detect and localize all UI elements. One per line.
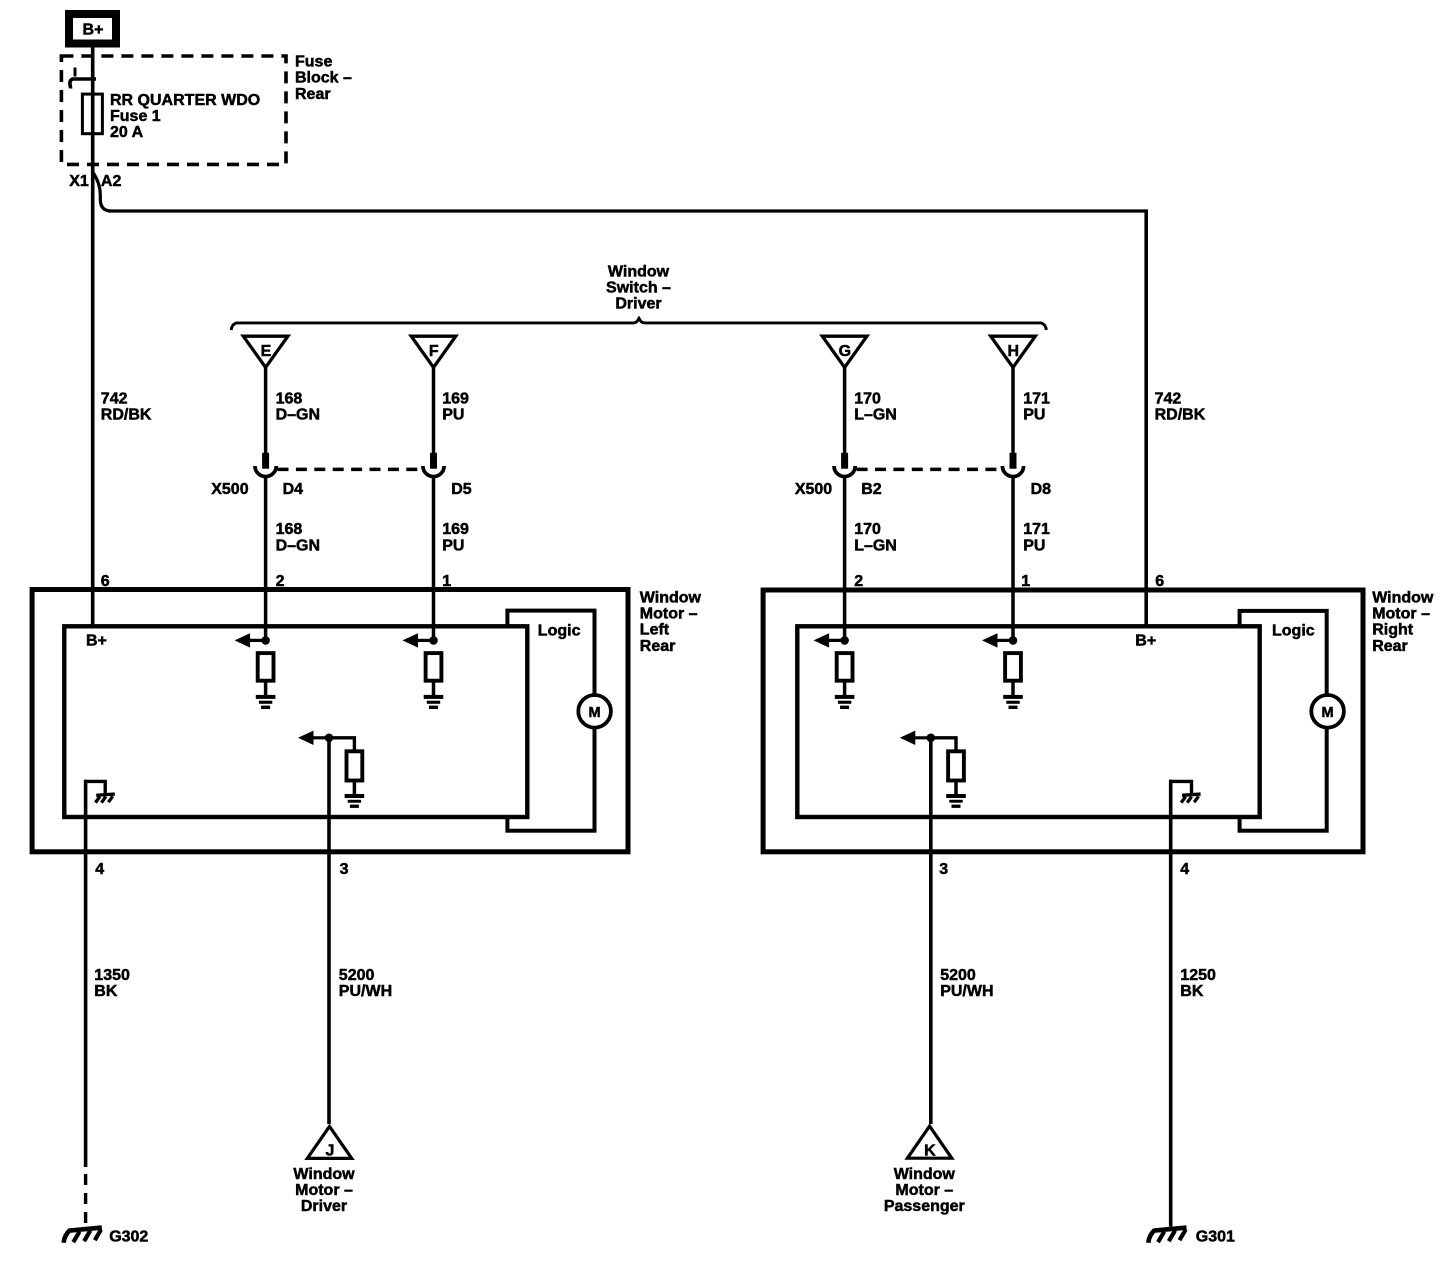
svg-text:20 A: 20 A bbox=[110, 124, 144, 141]
svg-text:Window: Window bbox=[894, 1166, 956, 1183]
svg-text:Fuse: Fuse bbox=[295, 54, 332, 71]
svg-text:3: 3 bbox=[340, 861, 349, 878]
svg-text:PU: PU bbox=[442, 407, 464, 424]
svg-text:Logic: Logic bbox=[1272, 623, 1315, 640]
svg-text:RD/BK: RD/BK bbox=[1155, 407, 1206, 424]
svg-text:742: 742 bbox=[101, 391, 128, 408]
svg-text:168: 168 bbox=[276, 521, 303, 538]
svg-text:Left: Left bbox=[640, 622, 670, 639]
svg-text:D4: D4 bbox=[283, 481, 304, 498]
svg-text:B+: B+ bbox=[1135, 633, 1156, 650]
svg-text:5200: 5200 bbox=[339, 967, 375, 984]
svg-text:D–GN: D–GN bbox=[276, 407, 320, 424]
svg-text:Window: Window bbox=[608, 264, 670, 281]
svg-text:169: 169 bbox=[442, 391, 469, 408]
svg-text:BK: BK bbox=[94, 983, 118, 1000]
svg-text:Passenger: Passenger bbox=[884, 1198, 965, 1215]
svg-text:6: 6 bbox=[101, 573, 110, 590]
svg-text:Window: Window bbox=[1372, 590, 1434, 607]
svg-text:Window: Window bbox=[640, 590, 702, 607]
svg-text:H: H bbox=[1008, 343, 1020, 360]
svg-text:Rear: Rear bbox=[295, 86, 331, 103]
svg-text:5200: 5200 bbox=[940, 967, 976, 984]
svg-text:Motor –: Motor – bbox=[640, 606, 698, 623]
svg-text:Driver: Driver bbox=[615, 296, 661, 313]
svg-text:G302: G302 bbox=[109, 1229, 148, 1246]
svg-text:RD/BK: RD/BK bbox=[101, 407, 152, 424]
svg-text:Logic: Logic bbox=[538, 623, 581, 640]
svg-text:F: F bbox=[429, 343, 439, 360]
svg-text:E: E bbox=[261, 343, 272, 360]
svg-text:Switch –: Switch – bbox=[606, 280, 671, 297]
svg-text:D–GN: D–GN bbox=[276, 537, 320, 554]
svg-text:Right: Right bbox=[1372, 622, 1414, 639]
svg-text:PU/WH: PU/WH bbox=[940, 983, 993, 1000]
svg-text:PU: PU bbox=[1023, 407, 1045, 424]
svg-text:Rear: Rear bbox=[1372, 638, 1408, 655]
svg-text:K: K bbox=[924, 1142, 936, 1159]
svg-text:B+: B+ bbox=[86, 633, 107, 650]
svg-text:3: 3 bbox=[939, 861, 948, 878]
svg-text:D5: D5 bbox=[451, 481, 472, 498]
svg-text:L–GN: L–GN bbox=[854, 537, 897, 554]
svg-text:RR QUARTER WDO: RR QUARTER WDO bbox=[110, 92, 260, 109]
svg-text:B2: B2 bbox=[861, 481, 882, 498]
svg-text:169: 169 bbox=[442, 521, 469, 538]
svg-text:Rear: Rear bbox=[640, 638, 676, 655]
svg-text:171: 171 bbox=[1023, 521, 1050, 538]
svg-text:742: 742 bbox=[1155, 391, 1182, 408]
svg-text:Driver: Driver bbox=[301, 1198, 347, 1215]
svg-text:B+: B+ bbox=[83, 22, 104, 39]
svg-text:Block –: Block – bbox=[295, 70, 352, 87]
svg-text:PU/WH: PU/WH bbox=[339, 983, 392, 1000]
svg-text:4: 4 bbox=[95, 861, 104, 878]
svg-text:PU: PU bbox=[442, 537, 464, 554]
svg-text:6: 6 bbox=[1155, 573, 1164, 590]
svg-text:X500: X500 bbox=[795, 481, 832, 498]
svg-text:171: 171 bbox=[1023, 391, 1050, 408]
svg-text:A2: A2 bbox=[101, 173, 122, 190]
svg-text:168: 168 bbox=[276, 391, 303, 408]
svg-text:BK: BK bbox=[1180, 983, 1204, 1000]
svg-text:G301: G301 bbox=[1196, 1229, 1235, 1246]
svg-text:2: 2 bbox=[276, 573, 285, 590]
svg-text:L–GN: L–GN bbox=[854, 407, 897, 424]
svg-text:1350: 1350 bbox=[94, 967, 130, 984]
svg-text:D8: D8 bbox=[1031, 481, 1052, 498]
svg-text:X1: X1 bbox=[69, 173, 89, 190]
svg-text:Fuse 1: Fuse 1 bbox=[110, 108, 161, 125]
svg-text:Motor –: Motor – bbox=[895, 1182, 953, 1199]
svg-text:1250: 1250 bbox=[1180, 967, 1216, 984]
svg-text:1: 1 bbox=[442, 573, 451, 590]
svg-text:J: J bbox=[326, 1142, 335, 1159]
svg-text:4: 4 bbox=[1180, 861, 1189, 878]
svg-text:Window: Window bbox=[293, 1166, 355, 1183]
svg-text:G: G bbox=[839, 343, 851, 360]
svg-text:PU: PU bbox=[1023, 537, 1045, 554]
svg-text:Motor –: Motor – bbox=[295, 1182, 353, 1199]
svg-text:170: 170 bbox=[854, 521, 881, 538]
svg-text:Motor –: Motor – bbox=[1372, 606, 1430, 623]
svg-text:2: 2 bbox=[854, 573, 863, 590]
svg-text:170: 170 bbox=[854, 391, 881, 408]
svg-text:M: M bbox=[589, 705, 601, 721]
svg-text:M: M bbox=[1322, 705, 1334, 721]
svg-text:1: 1 bbox=[1021, 573, 1030, 590]
svg-text:X500: X500 bbox=[211, 481, 248, 498]
